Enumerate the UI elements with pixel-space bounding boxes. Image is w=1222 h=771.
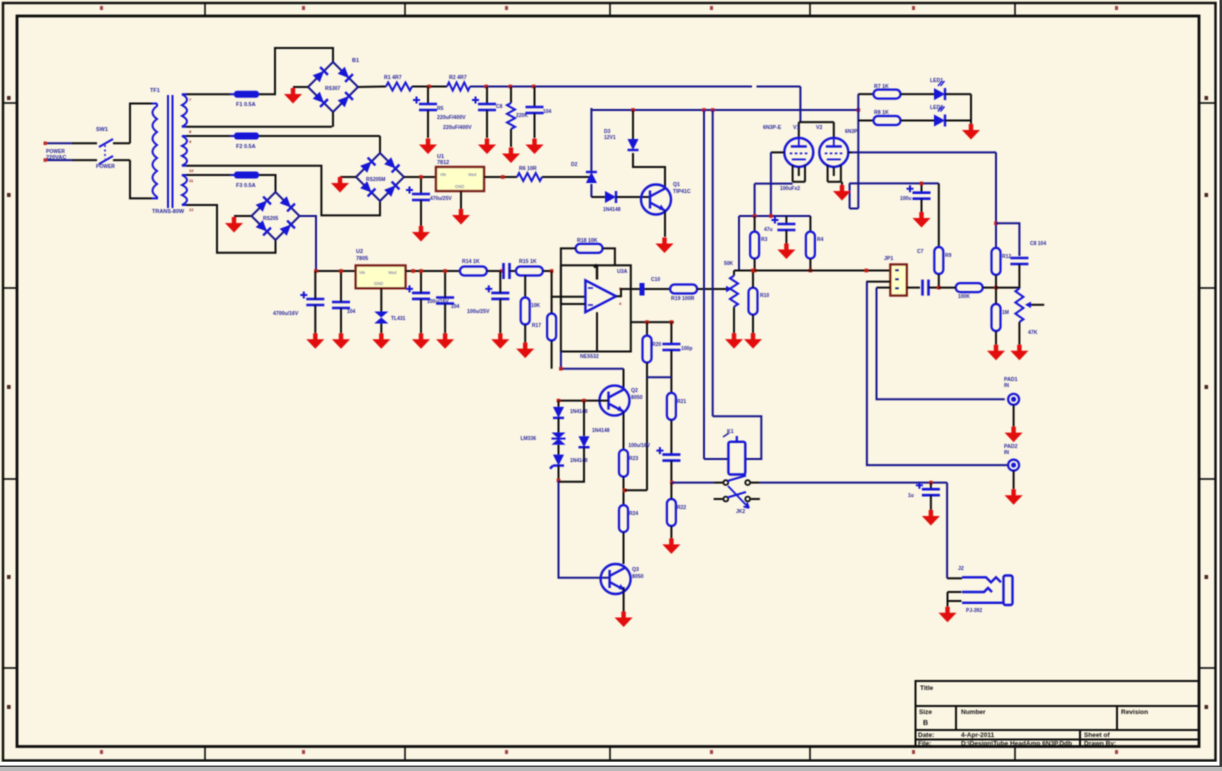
wire tube pin [827,165,829,182]
jack J2 ground stubs [948,592,962,601]
wire tap3 to F2 [186,135,234,137]
wire to Q3 base [559,481,610,578]
ground RP2 [1010,345,1028,361]
svg-text:R12: R12 [1002,254,1011,260]
svg-text:Revision: Revision [1121,709,1148,716]
wire C18 stub [499,271,501,293]
wire heater rail [591,109,858,111]
fuse F2 [230,133,263,140]
svg-text:NE5532: NE5532 [580,354,599,360]
svg-text:TIP41C: TIP41C [673,189,691,195]
svg-text:50K: 50K [724,261,734,267]
wire to jack [946,483,948,579]
wire U-link up [849,183,851,208]
wire C9 gnd [930,495,932,510]
svg-text:TF1: TF1 [150,88,160,94]
wire R17 down [551,341,553,369]
wire B3 minus stub [234,215,251,217]
svg-text:Vout: Vout [388,270,397,275]
wire stub [714,482,723,484]
svg-text:R20: R20 [652,342,661,348]
wire [670,420,672,455]
wire cathode right rail [849,182,939,184]
potentiometer RP1 (volume) [730,276,738,307]
capacitor C10 (output series) [640,283,645,296]
wire Q2 collector [623,369,625,390]
svg-text:U2: U2 [356,249,363,255]
wire [939,287,956,289]
svg-text:SW1: SW1 [96,127,108,133]
zener D8 [374,312,388,324]
wire pot top [733,271,735,276]
op-amp U3 block [561,265,631,351]
svg-text:104: 104 [347,309,356,315]
svg-text:F3 0.5A: F3 0.5A [236,183,256,189]
junction [670,481,674,485]
ground heater [833,185,851,201]
svg-text:470u/25V: 470u/25V [430,196,452,202]
junction [411,269,415,273]
wire to C8 [996,223,1019,256]
switch SW1 [99,139,113,164]
svg-text:D:\Design\Tube HeadAmp 6N3P.Dd: D:\Design\Tube HeadAmp 6N3P.Ddb [961,741,1072,748]
bridge rectifier B3 [252,192,300,240]
svg-text:C8: C8 [496,104,503,110]
junction [582,399,586,403]
LED D4 [934,88,945,100]
svg-text:6N3P-E: 6N3P-E [763,125,782,131]
resistor R1 [386,83,412,91]
regulator U1 7812 [436,167,484,191]
wire R3 gnd [510,129,512,147]
transformer T1 primary winding [152,104,157,199]
resistor R22 [667,499,676,526]
capacitor C18 [485,285,509,299]
wire C6 gnd [785,230,787,244]
transistor Q2 [600,386,630,416]
wire J1 pin2 [866,281,890,283]
svg-text:R24: R24 [629,511,638,517]
wire [412,86,447,88]
junction [532,85,536,89]
wire [646,322,648,336]
wire [558,401,560,407]
ground C17 [436,333,454,349]
svg-text:R7 1K: R7 1K [874,84,889,90]
ground C5 [913,212,931,228]
svg-text:R4: R4 [817,237,824,243]
wire switch out [760,482,947,484]
wire tube pin [833,167,835,176]
svg-text:104: 104 [543,109,552,115]
zener D11 [553,455,564,466]
wire V2 plate [833,122,835,139]
svg-text:100uFx2: 100uFx2 [780,186,800,192]
svg-text:R22: R22 [677,505,686,511]
svg-text:1N4148: 1N4148 [592,428,610,434]
wire C5 stub [921,183,923,192]
wire tap6 to bridge B3 [186,205,276,253]
ground C18 [491,333,509,349]
svg-text:File:: File: [918,741,931,748]
capacitor C9 [916,482,940,496]
junction [751,269,755,273]
wire tube right rail [852,151,996,153]
wire V1 plate [798,122,800,139]
transformer T1 secondary windings [182,94,187,205]
wire [670,526,672,538]
svg-text:1N4148: 1N4148 [603,207,621,213]
wire V2 grid [848,151,852,153]
pad P2 [1008,460,1019,471]
junction [702,108,706,112]
wire relay feed B [712,110,714,416]
wire AC N [45,159,72,161]
svg-text:J2: J2 [958,566,964,572]
svg-text:R21: R21 [677,399,686,405]
junction [501,175,505,179]
transistor Q1 [641,185,671,215]
wire op-amp out [616,289,640,296]
svg-text:R8 1K: R8 1K [874,110,889,116]
junction [865,269,869,273]
wire down [754,184,756,216]
wire bias bus [739,215,810,217]
resistor R11 [956,283,983,292]
wire [995,331,997,345]
wire [487,270,504,272]
resistor R12 [992,248,1001,275]
resistor R8 [806,232,815,259]
svg-text:R23: R23 [629,456,638,462]
junction [753,214,757,218]
svg-text:104: 104 [451,304,460,310]
junction [314,269,318,273]
diode D10 (dual) [552,433,566,445]
junction [994,286,998,290]
wire C15 gnd [340,308,342,333]
ground R16 [516,343,534,359]
wire LED feed vertical [857,94,859,208]
svg-text:D2: D2 [571,162,578,168]
svg-text:R6 10R: R6 10R [519,166,537,172]
svg-text:R5: R5 [437,106,444,112]
svg-text:8050: 8050 [631,395,643,401]
wire stub [751,482,760,484]
wire Q1 emitter [664,211,666,238]
capacitor C8 [1010,258,1028,264]
svg-text:100u/16V: 100u/16V [628,443,650,449]
svg-text:47K: 47K [1028,330,1038,336]
svg-text:GND: GND [374,281,383,286]
wire [901,93,935,95]
ground C6 [777,244,795,260]
wire AC L lead [72,142,97,144]
ground LEDs [962,124,980,140]
diode D3 [605,191,616,203]
svg-text:7812: 7812 [437,160,449,166]
junction [631,108,635,112]
wire U1 gnd [460,191,462,209]
svg-text:R19 100R: R19 100R [671,296,695,302]
svg-text:POWER: POWER [96,164,115,170]
junction [623,489,627,493]
wire B2 minus stub [340,176,356,178]
wire [858,120,873,122]
wire C15 stub [340,271,342,302]
wire C6 stub [785,216,787,224]
junction [419,175,423,179]
wire B3 out down to 5V reg [300,216,316,271]
wire right rail down [995,152,997,248]
svg-text:IN: IN [1004,450,1009,456]
ground J2 [939,607,957,623]
junction [920,182,924,186]
svg-text:Vin: Vin [440,172,447,177]
wire F2 to bridge B2 [259,135,380,137]
junction [670,320,674,324]
bridge rectifier B1 [308,62,358,112]
wire C3 stub [534,87,536,108]
transistor Q3 [601,564,631,594]
wire R7a stub [754,216,756,232]
wire Q3 emitter [623,587,625,612]
wire B1 minus stub [293,86,308,88]
resistor R23 [619,450,628,477]
capacitor C3 [526,107,544,113]
wire C14 gnd [314,305,316,333]
wire to RP2 [996,287,1019,289]
resistor R19 [670,285,697,294]
resistor R3 [507,103,515,129]
op-amp U3 pin 1 [594,265,597,280]
resistor R14 [460,267,487,276]
capacitor C14 [300,292,324,306]
svg-text:100u/25V: 100u/25V [467,309,490,315]
wire [510,270,516,272]
op-amp U3 triangle [585,280,616,312]
wire B3 to U2 [316,270,356,272]
wire zener stub [632,110,634,139]
ground Q1 [656,238,674,254]
wire heater gnd stub [841,182,843,185]
wire to pad P2 [867,282,1008,466]
resistor R9 [934,247,943,274]
wire tube pin [804,165,806,182]
svg-text:100p: 100p [681,346,692,352]
svg-text:Q1: Q1 [673,182,680,188]
wire R16 gnd [524,325,526,343]
wire to D3 [591,196,605,198]
power flag -V B1 [284,88,302,104]
wire heater feed up [590,108,592,172]
ground C15 [332,333,350,349]
connector J1 [890,265,906,296]
ground C4 [412,226,430,242]
svg-text:C8 104: C8 104 [1030,241,1046,247]
wire B1 plus out [358,86,386,89]
svg-text:12V1: 12V1 [604,135,616,141]
wire R9 down [938,274,940,288]
wire primary top [130,104,152,144]
svg-text:4-Apr-2011: 4-Apr-2011 [961,732,995,739]
wire to RP1 wiper [697,288,726,290]
ground C2 [478,139,496,155]
wire plate bus [799,121,834,123]
ground C1 [419,139,437,155]
wire relay loop [713,416,762,459]
resistor R6 [874,116,901,125]
capacitor C5 [907,185,931,199]
junction [645,320,649,324]
svg-text:PJ-392: PJ-392 [966,608,982,614]
tube V2 6922 [819,138,848,167]
resistor R7 [750,232,759,259]
wire R8 down [809,259,811,271]
svg-text:Vout: Vout [468,172,477,177]
junction [509,85,513,89]
wire [583,401,585,437]
junction [937,286,941,290]
svg-text:1M: 1M [1002,310,1009,316]
title block [916,681,1200,747]
wire heater V2 [828,181,841,183]
svg-text:1u: 1u [908,493,914,499]
svg-text:R9: R9 [945,253,952,259]
svg-text:U3A: U3A [617,269,628,275]
wire to pad P1 [877,288,1005,400]
wire C16 gnd [420,299,422,333]
wire cathode left [755,183,793,185]
switch S2 pole 1 [723,480,750,485]
wire branch return [559,447,585,482]
svg-text:Number: Number [961,709,986,716]
svg-text:V1: V1 [793,125,799,131]
wire heater feed down [590,184,592,197]
junction [929,481,933,485]
svg-text:6N3P: 6N3P [845,129,858,135]
wire C5 gnd [921,199,923,212]
ground U1 [452,209,470,225]
svg-text:R14 1K: R14 1K [462,259,480,265]
ground Q3 [615,612,633,628]
wire U-link [850,208,859,210]
title block text [918,685,1148,748]
resistor R21 [667,393,676,420]
wire feedback right [603,248,615,265]
svg-text:C10: C10 [651,277,660,283]
capacitor C2 [472,97,496,111]
ground P2 [1005,489,1023,505]
wire jack gnd [947,601,949,607]
wire R8 stub [809,216,811,232]
wire stub [714,498,723,500]
pad P1 [1008,394,1019,405]
wire B2 out to U1 [404,176,436,178]
wire C16 stub [420,271,422,293]
wire op-amp bias bus [561,352,624,369]
wire U1 out [484,176,517,178]
svg-text:220uF/400V: 220uF/400V [437,115,466,121]
wire C3 gnd [534,113,536,138]
fuse F3 [230,172,263,179]
svg-text:220uF/400V: 220uF/400V [443,125,472,131]
ground C16 [412,333,430,349]
ground RP1 [725,333,743,349]
svg-text:Title: Title [920,685,934,692]
svg-text:4700u/16V: 4700u/16V [273,311,299,317]
wire B1 bottom [332,112,334,127]
svg-text:R3: R3 [761,237,768,243]
LED D5 [934,115,945,127]
wire stub [751,498,760,500]
wire jack tip [947,577,962,579]
svg-text:10K: 10K [531,303,541,309]
wiper RP2 [1031,304,1044,306]
wire F2 drop to bridge B2 [379,136,381,153]
zener D2 [628,139,639,150]
svg-text:B1: B1 [352,58,359,64]
wire ladder mid [647,376,671,378]
headphone jack J2 [962,576,1013,606]
wire C9 stub [930,483,932,490]
wire R10 stub [752,271,754,288]
svg-text:Size: Size [919,709,932,716]
svg-text:R15 1K: R15 1K [519,259,537,265]
resistor R15 [516,267,543,276]
diode D9 [553,407,564,418]
capacitor C11 [662,344,680,350]
wire tube pin [798,167,800,176]
wire [670,483,672,499]
wire V1 grid [771,151,785,153]
svg-text:F1 0.5A: F1 0.5A [236,102,256,108]
power flag -V B2 [331,177,349,193]
wire C17 stub [444,271,446,298]
wire F1 to bridge B1 [259,48,333,94]
potentiometer RP2 [1015,289,1023,322]
wire [995,288,997,304]
diode D12 [579,436,590,447]
capacitor C17 [436,298,454,304]
svg-text:Sheet of: Sheet of [1084,732,1110,739]
svg-text:100K: 100K [958,294,970,300]
wire R3 stub [510,87,512,104]
wire C17 gnd [444,304,446,334]
svg-text:F2 0.5A: F2 0.5A [236,144,256,150]
svg-text:R10: R10 [760,293,769,299]
wire [670,322,672,344]
wire relay left [704,458,728,460]
svg-text:R17: R17 [532,323,541,329]
ground R3 [502,148,520,164]
junction [550,269,554,273]
wire audio bus [734,270,890,272]
svg-text:1N4148: 1N4148 [570,458,588,464]
wire feedback to -in [561,248,586,304]
wire R10 down [752,315,754,333]
svg-text:47u: 47u [764,227,773,233]
svg-text:12: 12 [189,207,194,212]
svg-text:TRANS-80W: TRANS-80W [152,209,185,215]
junction [994,222,998,226]
svg-text:Q2: Q2 [631,388,638,394]
capacitor C19 (series) [504,263,510,279]
wire ladder top [631,321,674,323]
wire C1 gnd [427,110,429,138]
wire Q2 emitter [623,412,625,450]
transformer T1 core [168,95,173,208]
